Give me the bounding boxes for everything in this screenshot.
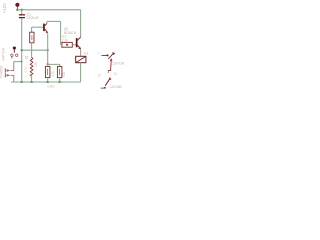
resistor R4 — [45, 67, 50, 78]
wire Q2 emitter to coil — [80, 49, 82, 56]
svg-text:12V-DB: 12V-DB — [112, 62, 124, 66]
svg-text:GND: GND — [47, 85, 55, 89]
wire pin1 up to switch — [13, 62, 15, 71]
svg-text:P: P — [98, 51, 100, 55]
relay contact blade top — [108, 52, 115, 59]
svg-text:K1: K1 — [84, 51, 88, 55]
wire Q1 emitter down — [47, 33, 49, 64]
svg-text:10k: 10k — [34, 61, 38, 67]
svg-text:SWITCH: SWITCH — [2, 47, 6, 61]
relay contact pin stub top — [102, 54, 109, 56]
switch S1 — [11, 47, 18, 59]
svg-text:2.2k: 2.2k — [51, 71, 55, 77]
wire R5 bottom stub — [59, 78, 61, 82]
wire collector horizontal — [47, 20, 61, 22]
wire Q2 collector to rail — [80, 10, 82, 37]
wire switch to vertical — [14, 61, 22, 63]
wire top rail — [16, 9, 80, 11]
wire Q1 collector up — [46, 21, 48, 23]
node junction rail R5 — [59, 81, 61, 83]
node A junction dot — [21, 49, 23, 51]
svg-text:POWER: POWER — [0, 65, 4, 78]
wire to right resistor — [48, 64, 60, 66]
relay coil K1 — [76, 56, 86, 62]
wire C1 bottom to node A — [21, 18, 23, 82]
capacitor C1 — [19, 14, 25, 18]
resistor R1 — [30, 32, 34, 43]
svg-text:2200uF: 2200uF — [26, 16, 38, 20]
node junction at +12V — [16, 9, 18, 11]
wire bottom rail — [11, 81, 81, 83]
resistor R5 — [57, 67, 62, 78]
wire R3 left — [61, 44, 62, 46]
svg-text:BC547A: BC547A — [64, 31, 77, 35]
svg-text:12V-DB: 12V-DB — [110, 85, 122, 89]
wire R1 bottom to R2 — [31, 43, 33, 58]
wire coil bottom to rail — [80, 63, 82, 82]
wire R3 right to Q2 base — [72, 44, 76, 46]
svg-text:2.2k: 2.2k — [62, 39, 68, 43]
node junction rail R2 — [31, 81, 33, 83]
wire R4 bottom stub — [47, 78, 49, 82]
wire pin2 down to rail — [13, 75, 15, 82]
node junction at C1 top — [21, 9, 23, 11]
resistor R2 zigzag — [30, 57, 33, 76]
node junction resistor pair — [47, 63, 49, 65]
wire R2 bottom stub — [31, 76, 33, 82]
relay contact arm middle — [108, 58, 113, 73]
wire C1 top stub — [21, 10, 23, 14]
relay contact blade bottom — [101, 77, 112, 89]
wire R1 top stub — [31, 27, 33, 32]
transistor Q1 — [43, 23, 48, 33]
svg-text:S1: S1 — [25, 56, 29, 60]
connector X1 pin 1 — [5, 68, 14, 72]
node junction rail C1 — [21, 81, 23, 83]
resistor R3 — [62, 42, 72, 47]
svg-text:15: 15 — [97, 74, 101, 78]
svg-text:10k: 10k — [62, 71, 66, 77]
svg-text:+12V: +12V — [2, 3, 7, 13]
svg-text:4.7k: 4.7k — [24, 67, 28, 73]
wire Q1 base — [32, 26, 43, 28]
node junction rail R4 — [47, 81, 49, 83]
supply +12V symbol — [15, 3, 19, 10]
node junction at emitter wire — [47, 49, 49, 51]
svg-text:12: 12 — [113, 72, 117, 76]
transistor Q2 — [76, 37, 81, 49]
node junction small — [21, 61, 23, 63]
wire collector down to R3 — [60, 21, 62, 44]
wire node A horizontal — [22, 49, 48, 51]
connector X1 pin 2 — [5, 73, 14, 77]
